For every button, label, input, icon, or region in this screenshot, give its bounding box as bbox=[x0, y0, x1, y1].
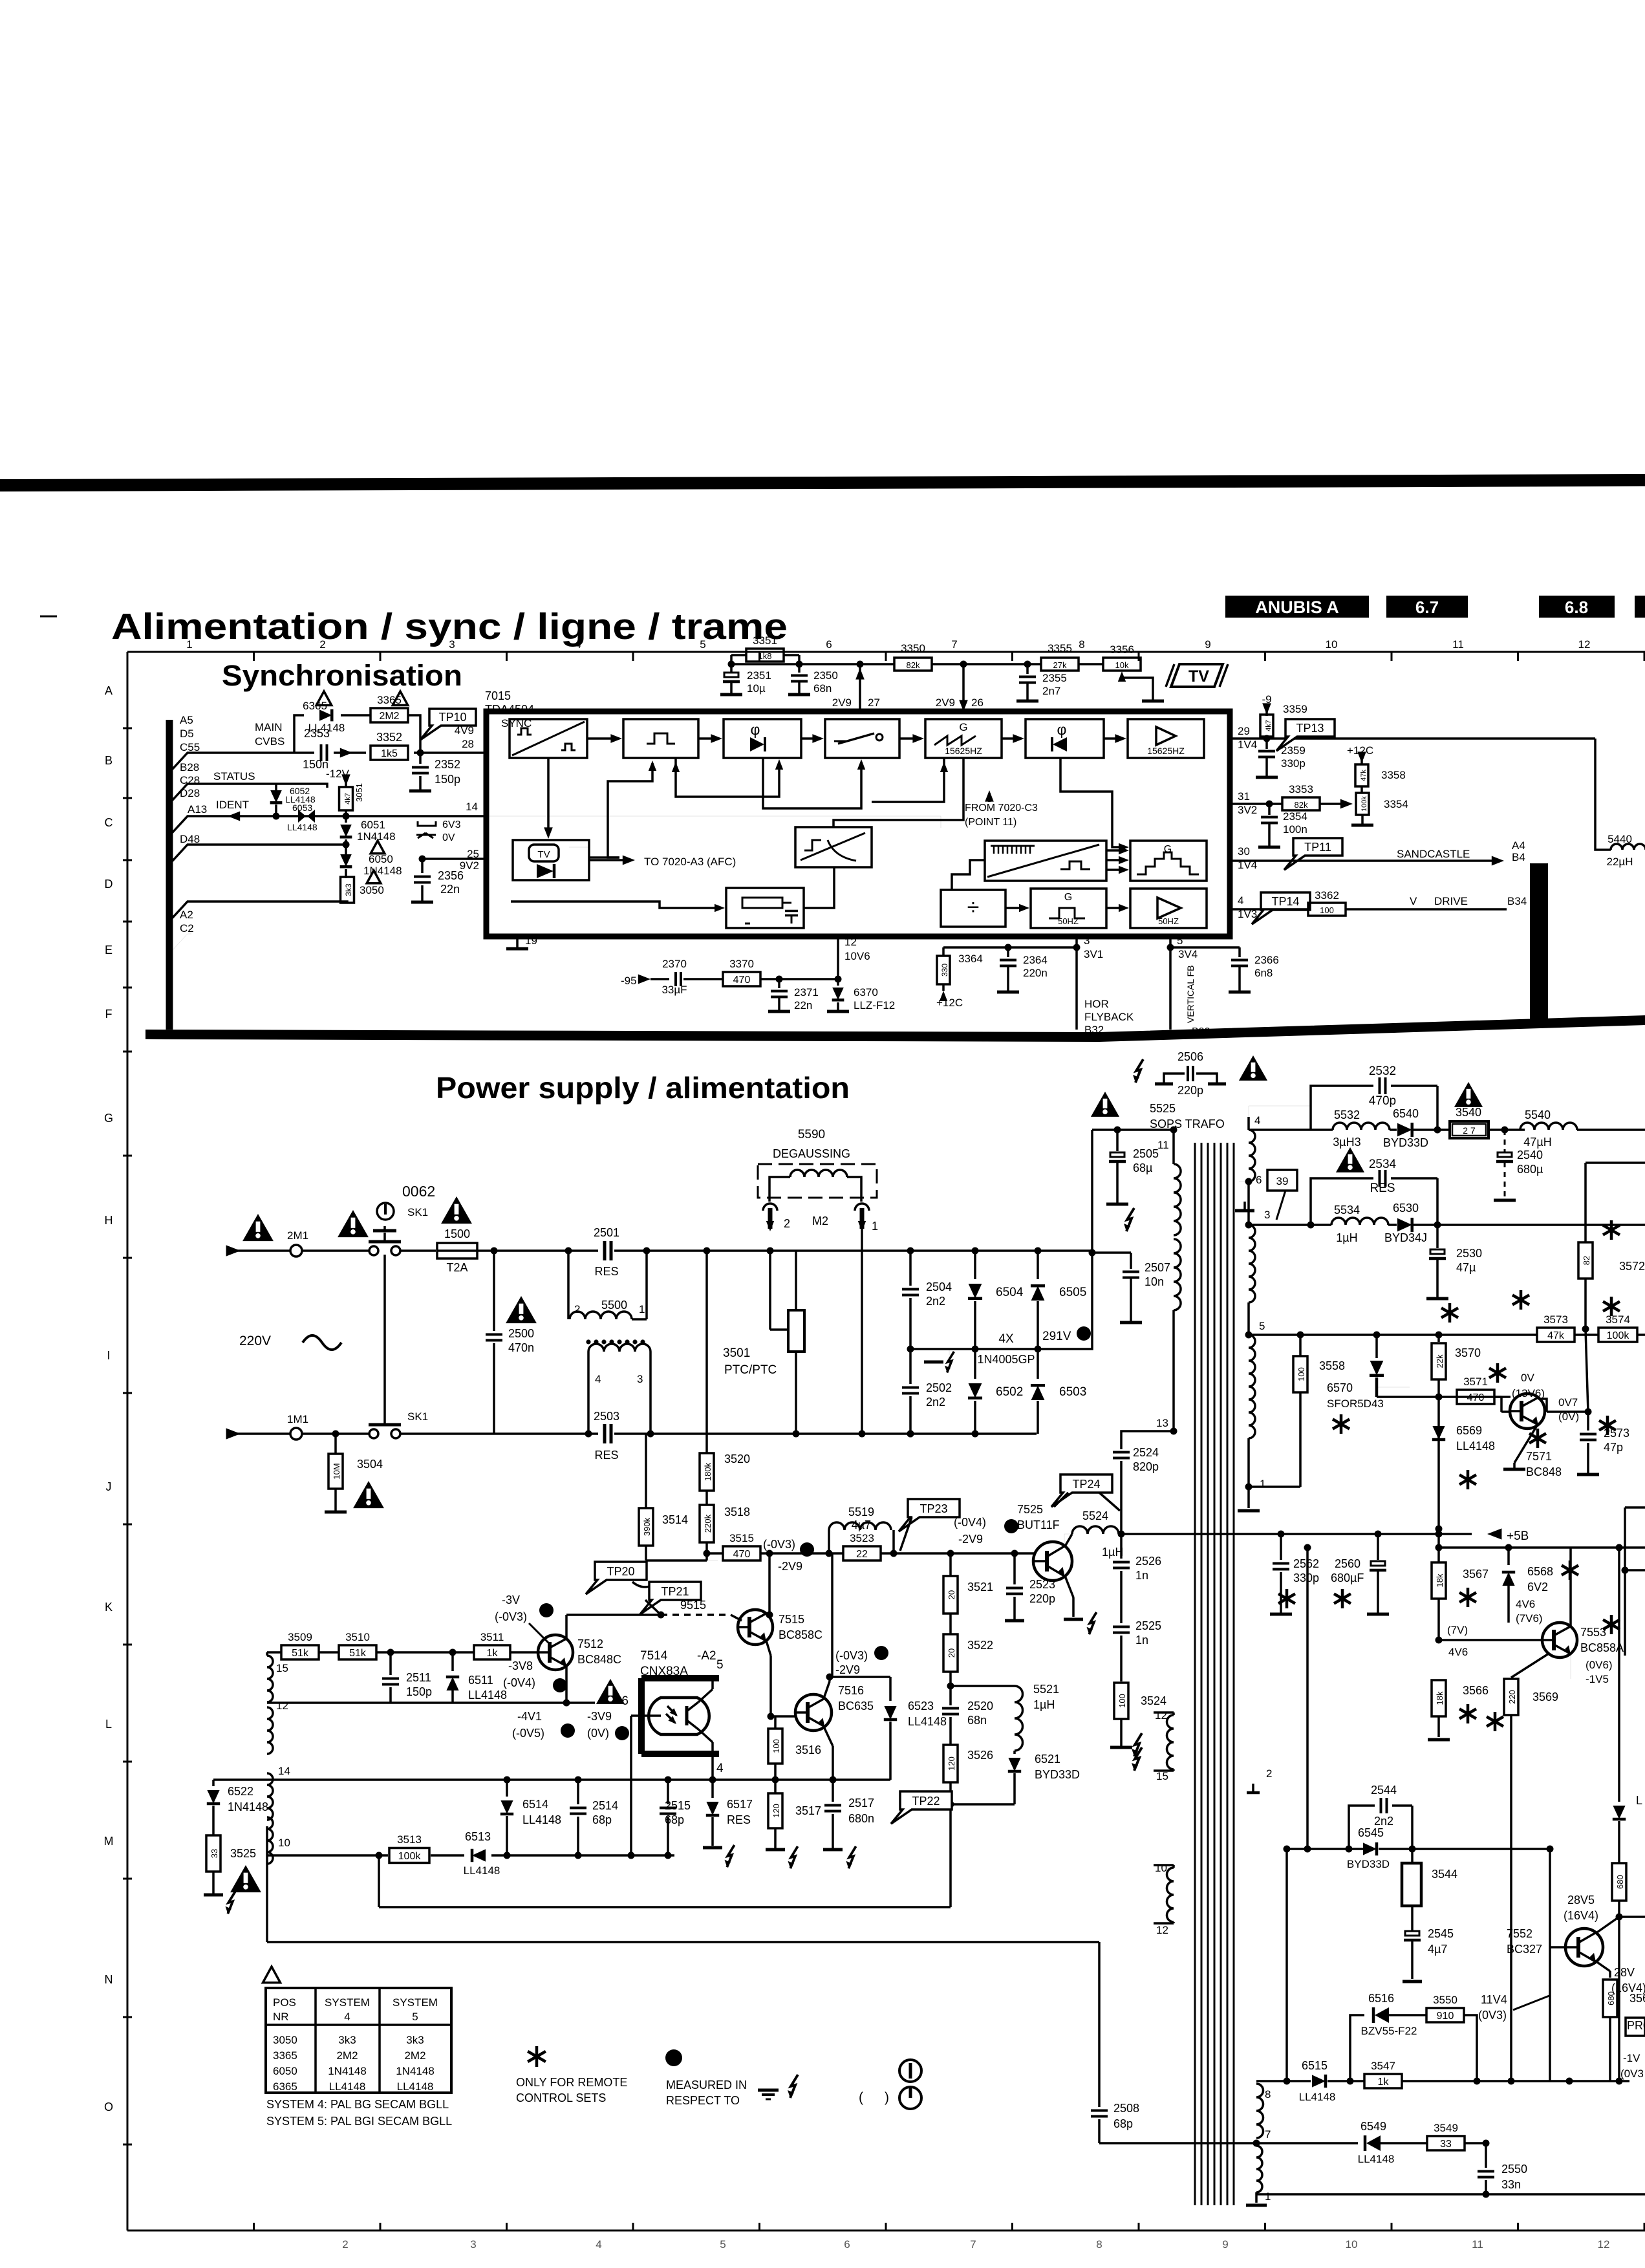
svg-text:3V2: 3V2 bbox=[1238, 804, 1257, 816]
svg-text:-4V1: -4V1 bbox=[517, 1710, 542, 1723]
resistor 3513 100k bbox=[389, 1848, 429, 1863]
svg-text:6540: 6540 bbox=[1393, 1107, 1419, 1120]
svg-text:2n7: 2n7 bbox=[1042, 685, 1060, 697]
svg-text:6516: 6516 bbox=[1368, 1992, 1394, 2005]
input bus bar (thick vertical) bbox=[166, 720, 173, 1030]
svg-text:M: M bbox=[104, 1835, 114, 1848]
svg-text:120: 120 bbox=[771, 1804, 781, 1818]
top grid ruler bbox=[127, 651, 1645, 653]
svg-text:1500: 1500 bbox=[444, 1227, 470, 1240]
wire to loop filter bbox=[511, 902, 721, 908]
bottom grid ruler bbox=[127, 2230, 1645, 2232]
svg-text:7553: 7553 bbox=[1580, 1626, 1606, 1639]
svg-text:+12C: +12C bbox=[936, 997, 963, 1009]
svg-text:2507: 2507 bbox=[1145, 1261, 1170, 1274]
svg-text:÷: ÷ bbox=[967, 895, 980, 920]
svg-text:330: 330 bbox=[940, 964, 949, 977]
testpoint TP13 bbox=[1276, 719, 1335, 751]
resistor 3567 18k bbox=[1437, 1548, 1440, 1562]
svg-text:10k: 10k bbox=[1115, 660, 1129, 670]
warning triangle 3504 bbox=[353, 1481, 384, 1508]
capacitor 2573 47p bbox=[1587, 1412, 1589, 1431]
svg-text:3521: 3521 bbox=[967, 1581, 993, 1593]
svg-text:7571: 7571 bbox=[1526, 1450, 1552, 1463]
svg-text:SYSTEM: SYSTEM bbox=[325, 1996, 370, 2009]
wire 7516 emitter bbox=[824, 1727, 833, 1746]
diode 6515 LL4148 bbox=[1312, 2075, 1326, 2088]
svg-text:3572: 3572 bbox=[1619, 1260, 1645, 1273]
svg-text:4: 4 bbox=[344, 2011, 350, 2023]
half winding pins 10-12 bbox=[1154, 1864, 1174, 1866]
svg-text:(-0V3): (-0V3) bbox=[763, 1538, 795, 1551]
svg-text:68n: 68n bbox=[967, 1714, 987, 1727]
svg-text:3525: 3525 bbox=[230, 1847, 256, 1860]
warning triangle right of 2506 bbox=[1239, 1055, 1267, 1081]
svg-text:2n2: 2n2 bbox=[1374, 1815, 1393, 1828]
svg-text:3352: 3352 bbox=[376, 731, 402, 744]
capacitor 2359 330p bbox=[1265, 739, 1268, 749]
svg-text:1µH: 1µH bbox=[1102, 1546, 1123, 1559]
transistor 7552 BC327 bbox=[1565, 1928, 1603, 1966]
resistor 3571 470 bbox=[1457, 1390, 1494, 1404]
svg-text:1k: 1k bbox=[487, 1648, 499, 1659]
svg-text:3356: 3356 bbox=[1110, 643, 1134, 656]
svg-text:2500: 2500 bbox=[508, 1327, 534, 1340]
capacitor 2526 1n bbox=[1120, 1534, 1123, 1559]
svg-text:11: 11 bbox=[1472, 2238, 1483, 2251]
svg-text:TP11: TP11 bbox=[1304, 841, 1331, 854]
capacitor 2503 RES (bottom) bbox=[603, 1424, 607, 1443]
wire 3526 to bottom bbox=[949, 1906, 952, 1908]
capacitor 2502 2n2 bbox=[909, 1349, 912, 1384]
transistor 7571 BC848 bbox=[1494, 1396, 1501, 1398]
capacitor 2532 470p bridge bbox=[1311, 1086, 1373, 1130]
transistor 7525 BUT11F bbox=[1033, 1542, 1072, 1581]
svg-text:PTC/PTC: PTC/PTC bbox=[724, 1363, 777, 1377]
svg-text:H: H bbox=[105, 1214, 113, 1227]
svg-text:18k: 18k bbox=[1435, 1691, 1445, 1705]
svg-text:3365: 3365 bbox=[273, 2049, 297, 2062]
svg-text:LL4148: LL4148 bbox=[329, 2080, 366, 2093]
svg-text:51k: 51k bbox=[292, 1648, 309, 1659]
diode 6505 bbox=[1037, 1251, 1039, 1279]
capacitor 2517 680n bbox=[832, 1780, 834, 1802]
diode 6530 BYD34J bbox=[1397, 1218, 1412, 1232]
svg-text:5: 5 bbox=[720, 2238, 726, 2251]
resistor 3523 22 bbox=[843, 1546, 881, 1561]
svg-text:33: 33 bbox=[1440, 2139, 1452, 2150]
svg-text:1N4148: 1N4148 bbox=[228, 1800, 268, 1813]
resistor 3549 33 bbox=[1427, 2136, 1465, 2150]
svg-text:50HZ: 50HZ bbox=[1058, 916, 1079, 926]
svg-text:6513: 6513 bbox=[465, 1830, 491, 1843]
svg-text:1: 1 bbox=[639, 1303, 645, 1315]
resistor 3051 4k7 bbox=[339, 787, 353, 810]
svg-text:A4: A4 bbox=[1512, 839, 1525, 852]
svg-text:RES: RES bbox=[594, 1265, 618, 1278]
svg-text:(0V): (0V) bbox=[587, 1727, 609, 1740]
triangle note mark bbox=[263, 1967, 281, 1983]
svg-text:RES: RES bbox=[727, 1813, 751, 1826]
svg-text:LL4148: LL4148 bbox=[1456, 1440, 1495, 1453]
svg-text:2540: 2540 bbox=[1517, 1149, 1543, 1161]
svg-text:1V4: 1V4 bbox=[1238, 739, 1257, 751]
svg-text:6570: 6570 bbox=[1327, 1381, 1353, 1394]
wire +B node bbox=[1118, 1531, 1125, 1538]
IC block oscillator G 15625HZ bbox=[925, 719, 1002, 758]
capacitor 2353 150n bbox=[320, 744, 323, 761]
svg-text:3364: 3364 bbox=[958, 953, 983, 965]
svg-text:33: 33 bbox=[210, 1849, 219, 1858]
testpoint TP21 bbox=[640, 1582, 701, 1614]
svg-text:2534: 2534 bbox=[1369, 1158, 1397, 1171]
resistor 680 right edge bbox=[1612, 1863, 1626, 1901]
wire 7515/7516 collector chain bbox=[768, 1553, 771, 1615]
svg-text:22k: 22k bbox=[1435, 1354, 1445, 1368]
resistor 3518 220k bbox=[700, 1505, 714, 1542]
svg-text:LLZ-F12: LLZ-F12 bbox=[854, 999, 895, 1011]
svg-text:2515: 2515 bbox=[665, 1799, 691, 1812]
svg-text:3504: 3504 bbox=[357, 1458, 383, 1471]
inductor 5521 1uH loop bbox=[951, 1685, 1015, 1687]
svg-text:NR: NR bbox=[273, 2011, 289, 2023]
svg-text:1k5: 1k5 bbox=[381, 748, 398, 759]
wire right column riser bbox=[1549, 1849, 1551, 2081]
svg-text:C: C bbox=[105, 816, 113, 829]
svg-text:5440: 5440 bbox=[1607, 833, 1632, 845]
fuse 1500 T2A bbox=[437, 1243, 477, 1258]
svg-text:-2V9: -2V9 bbox=[958, 1533, 983, 1546]
svg-text:2V9: 2V9 bbox=[832, 697, 852, 709]
svg-text:TP14: TP14 bbox=[1271, 895, 1299, 908]
svg-text:TP10: TP10 bbox=[438, 711, 466, 724]
inductor 5532 3uH3 bbox=[1333, 1123, 1390, 1130]
resistor 3510 51k bbox=[339, 1645, 376, 1659]
svg-text:5: 5 bbox=[412, 2011, 418, 2023]
svg-text:4: 4 bbox=[1254, 1114, 1260, 1127]
svg-text:0V7: 0V7 bbox=[1558, 1396, 1578, 1409]
svg-text:6523: 6523 bbox=[908, 1700, 934, 1712]
svg-text:3051: 3051 bbox=[354, 783, 364, 802]
svg-text:TP24: TP24 bbox=[1072, 1478, 1100, 1491]
svg-text:4: 4 bbox=[595, 1373, 601, 1385]
svg-text:FLYBACK: FLYBACK bbox=[1084, 1011, 1134, 1023]
svg-text:6: 6 bbox=[1256, 1174, 1262, 1186]
capacitor 2505 68u bbox=[1116, 1130, 1119, 1151]
svg-text:C2: C2 bbox=[180, 922, 194, 934]
svg-text:100: 100 bbox=[771, 1739, 781, 1753]
svg-text:PR02: PR02 bbox=[1627, 2019, 1645, 2032]
svg-text:φ: φ bbox=[751, 721, 760, 738]
svg-text:39: 39 bbox=[1276, 1175, 1289, 1187]
resistor 3566 18k bbox=[1432, 1680, 1446, 1716]
svg-text:7515: 7515 bbox=[779, 1613, 804, 1626]
svg-text:12: 12 bbox=[844, 936, 857, 948]
pin 19 ground bbox=[516, 936, 519, 947]
svg-text:2506: 2506 bbox=[1177, 1050, 1203, 1063]
svg-text:3355: 3355 bbox=[1048, 642, 1072, 654]
wire 6545 left riser bbox=[1306, 1548, 1309, 1849]
svg-text:-3V: -3V bbox=[502, 1593, 520, 1606]
IC block output amp 15625HZ bbox=[1128, 719, 1204, 758]
svg-text:MEASURED IN: MEASURED IN bbox=[666, 2079, 747, 2091]
testpoint TP23 bbox=[899, 1499, 960, 1531]
svg-text:BC848C: BC848C bbox=[577, 1653, 621, 1666]
svg-text:G: G bbox=[959, 721, 967, 733]
svg-text:6050: 6050 bbox=[273, 2065, 297, 2077]
svg-text:4: 4 bbox=[575, 638, 581, 651]
wire 12-line bbox=[267, 1701, 595, 1704]
pin 5 wire 3V4 VERTICAL FB bbox=[1169, 936, 1172, 1030]
svg-text:RESPECT TO: RESPECT TO bbox=[666, 2094, 740, 2107]
svg-text:G: G bbox=[1064, 892, 1072, 903]
svg-text:15: 15 bbox=[276, 1662, 288, 1674]
testpoint TP22 bbox=[891, 1791, 952, 1824]
svg-text:3570: 3570 bbox=[1455, 1346, 1481, 1359]
svg-text:POS: POS bbox=[273, 1996, 296, 2009]
capacitor 2514 68p bbox=[577, 1780, 579, 1804]
svg-text:4: 4 bbox=[1238, 894, 1243, 907]
svg-text:RES: RES bbox=[594, 1449, 618, 1462]
svg-text:6545: 6545 bbox=[1358, 1826, 1384, 1839]
svg-text:L: L bbox=[105, 1718, 112, 1731]
svg-text:2550: 2550 bbox=[1501, 2163, 1527, 2176]
svg-text:DRIVE: DRIVE bbox=[1434, 895, 1468, 907]
svg-text:7552: 7552 bbox=[1507, 1927, 1532, 1940]
svg-text:(0V3: (0V3 bbox=[1620, 2068, 1644, 2080]
svg-text:(-0V3): (-0V3) bbox=[495, 1610, 527, 1623]
svg-text:ANUBIS A: ANUBIS A bbox=[1255, 598, 1339, 617]
svg-text:4k7: 4k7 bbox=[1265, 720, 1273, 731]
svg-text:A13: A13 bbox=[188, 803, 207, 815]
svg-text:FROM 7020-C3: FROM 7020-C3 bbox=[965, 803, 1038, 814]
resistor 3547 1k bbox=[1364, 2074, 1402, 2088]
IC internal wires bbox=[547, 758, 550, 835]
svg-text:2524: 2524 bbox=[1133, 1446, 1159, 1459]
svg-text:82k: 82k bbox=[907, 660, 920, 670]
svg-text:29: 29 bbox=[1238, 725, 1250, 737]
svg-text:3509: 3509 bbox=[288, 1631, 312, 1643]
svg-text:2: 2 bbox=[1266, 1767, 1272, 1780]
svg-text:B4: B4 bbox=[1512, 851, 1525, 863]
svg-text:2504: 2504 bbox=[926, 1280, 952, 1293]
svg-text:2n2: 2n2 bbox=[926, 1396, 945, 1409]
resistor 3521 20 bbox=[949, 1553, 952, 1576]
inductor 5524 1uH bbox=[1064, 1534, 1072, 1546]
svg-text:6V2: 6V2 bbox=[1527, 1581, 1548, 1593]
resistor 3574 100k bbox=[1598, 1328, 1637, 1342]
svg-text:26: 26 bbox=[971, 697, 984, 709]
svg-text:7: 7 bbox=[970, 2238, 976, 2251]
svg-text:10n: 10n bbox=[1145, 1275, 1164, 1288]
resistor 3544 bbox=[1411, 1849, 1414, 1863]
svg-text:3µH3: 3µH3 bbox=[1333, 1136, 1360, 1149]
capacitor 2562 330p bbox=[1280, 1534, 1282, 1560]
svg-text:B: B bbox=[105, 754, 113, 767]
svg-text:-95: -95 bbox=[621, 975, 637, 987]
warning triangle 3525 bbox=[230, 1865, 261, 1892]
svg-text:(-0V4): (-0V4) bbox=[954, 1516, 986, 1529]
svg-text:2356: 2356 bbox=[438, 869, 464, 882]
svg-text:3k3: 3k3 bbox=[338, 2034, 356, 2046]
svg-text:3350: 3350 bbox=[901, 642, 925, 654]
svg-text:680: 680 bbox=[1615, 1875, 1625, 1889]
svg-text:2370: 2370 bbox=[662, 958, 687, 970]
svg-text:LL4148: LL4148 bbox=[908, 1715, 947, 1728]
ground mark pin 2 bbox=[1247, 1791, 1260, 1795]
svg-text:3513: 3513 bbox=[397, 1833, 422, 1846]
svg-text:1k8: 1k8 bbox=[758, 651, 772, 661]
svg-text:10µ: 10µ bbox=[747, 682, 766, 695]
resistor 3515 470 bbox=[707, 1552, 723, 1555]
connector 1M1 bbox=[290, 1428, 302, 1440]
svg-text:150n: 150n bbox=[303, 758, 328, 771]
svg-text:1µH: 1µH bbox=[1336, 1231, 1357, 1244]
capacitor 2501 RES (top) bbox=[603, 1241, 607, 1260]
resistor 3353 82k bbox=[1282, 797, 1320, 810]
svg-text:8: 8 bbox=[1096, 2238, 1102, 2251]
svg-text:3501: 3501 bbox=[723, 1346, 750, 1360]
svg-text:680µ: 680µ bbox=[1517, 1163, 1543, 1176]
svg-text:BZV55-F22: BZV55-F22 bbox=[1361, 2025, 1417, 2037]
wire rail2b bbox=[1439, 1546, 1645, 1549]
svg-text:5: 5 bbox=[700, 638, 705, 651]
pin 26 wire 2V9 bbox=[962, 664, 965, 707]
sheet ref edge box bbox=[1635, 596, 1645, 618]
svg-text:BYD33D: BYD33D bbox=[1035, 1768, 1080, 1781]
svg-text:6.7: 6.7 bbox=[1415, 598, 1439, 617]
svg-text:3: 3 bbox=[637, 1373, 643, 1385]
capacitor 2370 33uF bbox=[674, 972, 677, 986]
svg-text:O: O bbox=[104, 2101, 113, 2113]
IC block ramp generator bbox=[795, 827, 872, 867]
svg-text:6.8: 6.8 bbox=[1565, 598, 1588, 617]
svg-text:20: 20 bbox=[947, 1590, 956, 1599]
testpoint TP11 bbox=[1284, 838, 1342, 870]
node junction TP10 bbox=[417, 750, 424, 757]
svg-text:680: 680 bbox=[1606, 1991, 1616, 2005]
legend remote bbox=[528, 2046, 546, 2067]
svg-text:6522: 6522 bbox=[228, 1785, 253, 1798]
svg-text:6515: 6515 bbox=[1302, 2059, 1328, 2072]
svg-text:47µ: 47µ bbox=[1456, 1261, 1476, 1274]
testpoint TP10 bbox=[420, 709, 476, 740]
svg-text:D48: D48 bbox=[180, 833, 200, 845]
secondary winding pin4-6 bbox=[1247, 1117, 1250, 1130]
connector 2M1 bbox=[290, 1245, 302, 1257]
wire 6545 line bbox=[1287, 1848, 1363, 1850]
svg-text:T2A: T2A bbox=[446, 1261, 468, 1274]
svg-text:68p: 68p bbox=[592, 1813, 612, 1826]
wire pin14 inside bbox=[486, 816, 941, 828]
svg-text:LL4148: LL4148 bbox=[308, 722, 345, 734]
resistor 3365 2M2 bbox=[371, 708, 408, 722]
svg-text:82: 82 bbox=[1582, 1256, 1591, 1265]
svg-text:6050: 6050 bbox=[369, 853, 393, 865]
svg-text:4V6: 4V6 bbox=[1448, 1646, 1468, 1658]
svg-text:10: 10 bbox=[1155, 1862, 1167, 1874]
triangle mark 3365 bbox=[392, 691, 407, 705]
svg-text:5525: 5525 bbox=[1150, 1102, 1176, 1115]
svg-text:6053: 6053 bbox=[292, 803, 312, 813]
flash mark 2506 bbox=[1133, 1059, 1143, 1083]
svg-text:BC848: BC848 bbox=[1526, 1465, 1562, 1478]
svg-text:3568: 3568 bbox=[1629, 1992, 1645, 2005]
svg-text:HOR: HOR bbox=[1084, 998, 1109, 1010]
page top separator bar bbox=[0, 474, 1645, 491]
svg-text:2V9: 2V9 bbox=[936, 697, 955, 709]
svg-text:2544: 2544 bbox=[1371, 1784, 1397, 1797]
svg-text:12: 12 bbox=[276, 1700, 288, 1712]
svg-text:TP21: TP21 bbox=[661, 1585, 689, 1598]
wire 7552 connections bbox=[1550, 1946, 1567, 1949]
power on symbol bbox=[899, 2060, 921, 2082]
svg-text:1: 1 bbox=[1265, 2190, 1271, 2203]
svg-text:2573: 2573 bbox=[1604, 1427, 1629, 1440]
ground flash 3524 bbox=[1110, 1746, 1132, 1749]
wire pin3 branch bbox=[943, 946, 1077, 949]
wire +5B rail bbox=[1119, 1533, 1472, 1535]
ground pin1 bbox=[1255, 2194, 1258, 2203]
svg-text:2350: 2350 bbox=[813, 669, 838, 682]
capacitor 2351 10u bbox=[730, 664, 733, 673]
IC block pulse shaper bbox=[623, 719, 698, 758]
capacitor 2525 1n bbox=[1113, 1626, 1130, 1628]
svg-text:(7V): (7V) bbox=[1447, 1624, 1468, 1636]
power symbol 0062 SK1 bbox=[377, 1203, 394, 1220]
svg-text:7: 7 bbox=[1265, 2128, 1271, 2141]
capacitor 2354 100n bbox=[1268, 804, 1271, 815]
wire pin8 line bbox=[1256, 2080, 1311, 2082]
svg-text:100k: 100k bbox=[1607, 1330, 1630, 1341]
svg-text:SYSTEM: SYSTEM bbox=[392, 1996, 438, 2009]
diode 6051 1N4148 bbox=[345, 816, 347, 823]
svg-text:2505: 2505 bbox=[1133, 1147, 1159, 1160]
wire AFC output bbox=[589, 859, 626, 861]
diode 6513 LL4148 bbox=[472, 1849, 486, 1862]
svg-text:5590: 5590 bbox=[798, 1128, 825, 1141]
switch SK1 lower bbox=[369, 1429, 378, 1438]
svg-text:31: 31 bbox=[1238, 790, 1250, 803]
line filter 5500 winding 2-1 bbox=[567, 1251, 570, 1319]
svg-text:3510: 3510 bbox=[345, 1631, 370, 1643]
wire 1990 riser bbox=[1285, 1849, 1288, 2081]
IC block G 50HZ bbox=[1031, 889, 1106, 928]
svg-text:12: 12 bbox=[1156, 1924, 1168, 1936]
svg-text:3V1: 3V1 bbox=[1084, 948, 1103, 960]
dashed 9515 bbox=[661, 1614, 731, 1616]
resistor 3524 100 bbox=[1114, 1683, 1128, 1719]
wire tap14 left stub 6522 bbox=[213, 1778, 267, 1781]
resistor 3522 20 bbox=[943, 1634, 958, 1672]
svg-text:(13V6): (13V6) bbox=[1512, 1387, 1545, 1399]
svg-text:3567: 3567 bbox=[1463, 1568, 1489, 1581]
svg-text:3514: 3514 bbox=[662, 1513, 688, 1526]
svg-text:47µH: 47µH bbox=[1523, 1136, 1551, 1149]
svg-text:(0V6): (0V6) bbox=[1586, 1659, 1613, 1671]
IC block vertical ramp bbox=[985, 841, 1106, 881]
svg-text:6503: 6503 bbox=[1059, 1385, 1086, 1399]
svg-text:2501: 2501 bbox=[594, 1226, 619, 1239]
svg-text:6: 6 bbox=[826, 638, 832, 651]
svg-text:-1V: -1V bbox=[1623, 2052, 1640, 2064]
secondary winding pins 8-7-1 bbox=[1256, 2084, 1263, 2138]
svg-text:28V5: 28V5 bbox=[1567, 1894, 1595, 1906]
svg-text:2354: 2354 bbox=[1283, 810, 1307, 823]
triangle mark 3050 bbox=[367, 870, 381, 883]
wire 82-chain top bbox=[1586, 1161, 1645, 1164]
svg-text:3516: 3516 bbox=[795, 1744, 821, 1756]
